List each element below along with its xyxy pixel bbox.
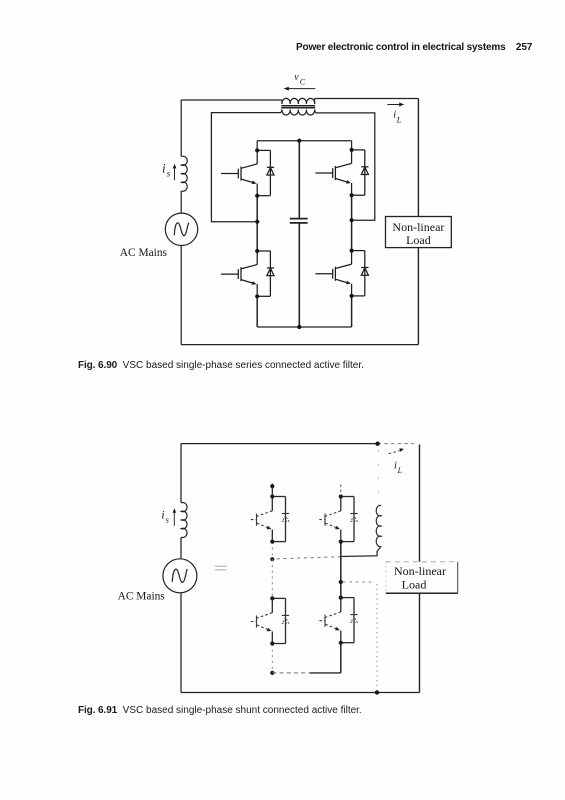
node left leg AC tap: [270, 557, 274, 561]
svg-text:i: i: [161, 509, 164, 521]
transistor Q8 (bottom-right IGBT fig 6.91): [319, 596, 357, 645]
wire VSC left connection: [211, 113, 281, 222]
AC source V1: [165, 213, 197, 245]
wire top rail: [181, 443, 378, 445]
wire inductor to source: [180, 537, 182, 558]
svg-text:i: i: [162, 160, 166, 175]
wire top rail dashed tail: [378, 443, 414, 445]
wire left leg top stub: [271, 484, 273, 497]
transistor Q1 (top-left IGBT + D1): [221, 148, 274, 198]
wire left leg bottom (faint): [271, 644, 273, 673]
label iL with dashed arrow: [394, 460, 403, 475]
wire right leg bottom: [340, 643, 342, 673]
wire right vertical: [419, 445, 421, 693]
label vC with arrow: [294, 72, 306, 87]
wire right leg segments: [351, 141, 353, 150]
transistor Q4 (bottom-right IGBT + D4): [315, 249, 368, 299]
wire bottom rail: [181, 344, 418, 346]
wire right leg mid: [340, 542, 342, 598]
transistor Q7 (top-right IGBT fig 6.91): [319, 494, 357, 543]
AC source V2: [163, 559, 197, 593]
wire right vertical (load branch): [417, 99, 419, 345]
coupling inductor Lc: [376, 505, 381, 546]
wire bottom rail: [181, 692, 420, 694]
non-linear load box (fig 6.90): [386, 217, 452, 248]
node left stub: [270, 484, 274, 488]
wire DC top rail: [257, 140, 351, 142]
node right mid: [350, 218, 354, 222]
label iL with arrow: [393, 110, 402, 125]
= mark (DC symbol): [215, 566, 227, 570]
svg-text:s: s: [166, 514, 170, 524]
node bridge bottom left: [270, 671, 274, 675]
non-linear load box (fig 6.91): [386, 562, 458, 594]
wire source to bottom rail: [180, 246, 182, 345]
svg-text:Load: Load: [402, 578, 427, 592]
node shunt tap: [375, 442, 379, 446]
transistor Q5 (top-left IGBT fig 6.91): [251, 494, 289, 543]
wire left vertical (source branch): [180, 100, 182, 157]
transformer T1 (series coupling): [281, 98, 316, 115]
transistor Q3 (top-right IGBT + D3): [315, 148, 368, 198]
svg-text:i: i: [394, 460, 397, 471]
node left mid: [255, 220, 259, 224]
inductor Ls (is): [181, 156, 187, 191]
label is2 with arrow: [161, 509, 169, 524]
wire bridge bottom rail left (faint): [272, 672, 310, 674]
wire top-left rail: [181, 99, 282, 101]
transistor Q6 (bottom-left IGBT fig 6.91): [251, 596, 289, 645]
svg-text:Non-linear: Non-linear: [392, 220, 444, 234]
wire right leg top stub (faint): [340, 485, 342, 497]
wire left leg inter-cell (faint): [271, 542, 273, 599]
page header: [296, 42, 532, 53]
svg-text:C: C: [300, 77, 306, 86]
node cap bottom: [297, 325, 301, 329]
transistor Q2 (bottom-left IGBT + D2): [221, 249, 274, 299]
wire DC bottom rail: [257, 326, 351, 328]
wire VSC right connection: [316, 113, 375, 220]
wire bridge bottom rail right: [310, 672, 341, 674]
wire return tap dashes: [343, 581, 372, 583]
capacitor C (DC link): [298, 141, 300, 219]
wire source to bottom: [180, 593, 182, 693]
svg-text:Load: Load: [406, 233, 431, 247]
wire left leg segments: [256, 141, 258, 151]
caption Fig 6.90: [78, 360, 364, 371]
wire inductor to source circle: [180, 191, 182, 213]
wire AC rail dashed to left leg: [274, 557, 341, 559]
inductor Ls2 (is): [181, 502, 187, 537]
wire inductor bottom to AC rail: [341, 546, 381, 556]
svg-text:L: L: [396, 115, 402, 124]
svg-text:Non-linear: Non-linear: [394, 564, 446, 578]
svg-text:s: s: [167, 169, 171, 179]
wire top-right rail: [315, 98, 419, 100]
svg-text:L: L: [397, 466, 403, 475]
node right leg return tap: [339, 580, 343, 584]
caption Fig 6.91: [78, 705, 362, 716]
wire return dotted vertical: [376, 584, 378, 693]
svg-text:AC Mains: AC Mains: [120, 247, 168, 259]
svg-text:AC Mains: AC Mains: [118, 591, 166, 603]
label is with arrow: [162, 160, 171, 178]
wire shunt inductor top link (faint): [377, 450, 379, 505]
wire left vertical: [180, 444, 182, 503]
node return tap: [375, 690, 379, 694]
node cap top: [297, 139, 301, 143]
svg-text:v: v: [294, 72, 299, 83]
